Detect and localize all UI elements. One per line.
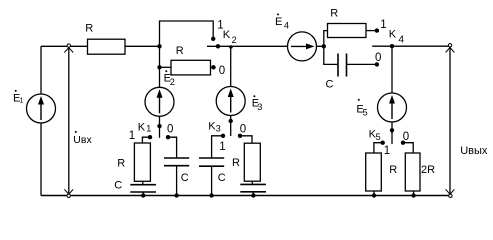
svg-text:C: C: [181, 172, 189, 184]
resistor R1 body: [88, 39, 126, 54]
wire E4 junction down to C3: [324, 46, 338, 64]
junction dot R6 rail: [372, 193, 376, 197]
svg-text:3: 3: [216, 124, 221, 134]
switch K5 contact 1 dot: [381, 141, 385, 145]
svg-text:R: R: [85, 23, 93, 35]
wire K5 left resistor to bottom rail: [373, 191, 375, 196]
resistor R5 body (K3 branch): [244, 143, 260, 181]
svg-text:1: 1: [380, 19, 386, 31]
wire K5 contact 0 to resistor 2R: [403, 143, 413, 154]
arrow inside source E5: [391, 98, 393, 119]
arrow inside source E1: [40, 99, 42, 120]
svg-text:1: 1: [19, 96, 23, 105]
resistor R6 body (K5 branch): [366, 153, 382, 191]
node circle Uout bottom: [449, 194, 452, 197]
wire right vertical output branch: [449, 46, 451, 195]
wire R3 right lead to K4 contact 1: [366, 30, 377, 32]
switch K1 contact 0 dot: [166, 135, 170, 139]
voltage source E1 circle: [27, 94, 56, 123]
switch K5 contact 0 dot: [401, 141, 405, 145]
svg-text:1: 1: [384, 145, 390, 157]
svg-text:K: K: [223, 29, 231, 41]
svg-text:C: C: [326, 79, 334, 91]
svg-text:Uвых: Uвых: [460, 145, 488, 157]
svg-text:K: K: [389, 29, 397, 41]
switch K4 pivot dot: [390, 44, 394, 48]
wire K3 contact 1 to capacitor: [212, 136, 223, 158]
switch K2 contact 1 dot: [211, 37, 215, 41]
svg-text:5: 5: [363, 108, 368, 118]
junction dot 2R rail: [411, 193, 415, 197]
capacitor C5 plates (under K3 resistor): [240, 183, 266, 185]
svg-text:1: 1: [129, 130, 135, 142]
junction dot E4 output: [322, 44, 326, 48]
wire loop node A up to K2 contact 1: [160, 21, 214, 46]
switch K4 contact 0 dot: [375, 62, 379, 66]
arrowhead Uvx bottom: [64, 189, 73, 194]
resistor R3 body: [328, 24, 367, 38]
wire K1 contact 1 to resistor: [142, 137, 150, 143]
arrowhead Uvx top: [64, 48, 73, 53]
node circle Uvx top: [67, 44, 70, 47]
wire C3 right lead to K4 contact 0: [347, 63, 377, 65]
junction node A dot (after R1): [157, 44, 161, 48]
arrowhead Uout top: [446, 48, 455, 53]
switch K2 pivot dot: [216, 44, 220, 48]
wire K1 resistor to series capacitor: [142, 181, 144, 184]
svg-text:0: 0: [240, 123, 246, 135]
wire K3 capacitor to bottom rail: [211, 166, 213, 195]
arrow inside source E3: [230, 92, 232, 113]
svg-text:C: C: [114, 179, 122, 191]
junction dot E3 top: [229, 45, 233, 49]
wire K3 series capacitor to bottom rail: [252, 192, 254, 196]
junction dot C5 rail: [251, 193, 255, 197]
svg-text:1: 1: [146, 123, 151, 133]
switch K1 contact 1 dot: [148, 135, 152, 139]
svg-text:4: 4: [284, 21, 289, 31]
switch K4 contact 1 dot: [375, 28, 379, 32]
wire E2 feed vertical: [159, 46, 161, 138]
wire K2 blade and top rail to E4: [207, 45, 324, 47]
capacitor C1 plates (under K1 resistor): [130, 184, 156, 186]
switch K2 contact 0 dot: [211, 65, 215, 69]
wire R2 right lead: [211, 66, 214, 68]
junction dot C1 rail: [141, 193, 145, 197]
resistor 2R body (K5 branch): [405, 153, 420, 191]
svg-text:R: R: [232, 157, 240, 169]
wire E4 junction up to R3: [324, 31, 328, 47]
voltage source E5 circle: [378, 93, 407, 122]
capacitor C4 plates (K3 contact 1): [199, 157, 224, 159]
measuring line Uvx: [68, 46, 70, 195]
svg-text:R: R: [117, 157, 125, 169]
capacitor C3 plates (E4 branch, vertical): [337, 54, 339, 77]
arrow inside source E4 (points right): [291, 45, 310, 47]
node circle Uvx bottom: [67, 194, 70, 197]
switch K3 contact 1 dot: [221, 134, 225, 138]
wire K1 series capacitor to bottom rail: [142, 192, 144, 196]
wire K5 right resistor to bottom rail: [413, 191, 415, 196]
node circle Uout top: [448, 44, 451, 47]
voltage source E4 circle: [288, 32, 317, 61]
svg-text:1: 1: [219, 141, 225, 153]
resistor R2 body: [171, 60, 211, 75]
wire E3 feed vertical: [230, 46, 232, 136]
wire E5 feed vertical: [391, 46, 393, 144]
wire K3 contact 0 to resistor: [240, 136, 252, 143]
svg-text:4: 4: [398, 35, 404, 46]
switch K3 pivot dot: [229, 119, 233, 123]
svg-text:Uвх: Uвх: [73, 134, 92, 146]
wire R2 left lead: [160, 66, 172, 68]
svg-text:1: 1: [217, 19, 223, 31]
arrowhead Uout bottom: [446, 189, 455, 194]
wire left vertical branch: [40, 46, 42, 195]
svg-text:3: 3: [257, 102, 262, 112]
wire K1 capacitor to bottom rail: [176, 166, 178, 196]
voltage source E2 circle: [145, 87, 174, 116]
svg-text:5: 5: [376, 132, 381, 142]
arrow inside source E2: [159, 92, 161, 113]
wire R1 to node A: [125, 45, 161, 47]
svg-text:0: 0: [219, 65, 225, 77]
voltage source E3 circle: [216, 87, 245, 116]
svg-text:E: E: [275, 16, 282, 28]
capacitor C2 plates (K1 contact 0): [164, 157, 189, 159]
svg-text:R: R: [389, 164, 397, 176]
svg-text:0: 0: [403, 131, 409, 143]
wire top rail left segment: [41, 45, 88, 47]
resistor R4 body (K1 branch): [134, 143, 150, 181]
svg-text:0: 0: [375, 52, 381, 64]
switch K5 pivot dot: [390, 128, 394, 132]
svg-text:2R: 2R: [421, 164, 435, 176]
wire K1 contact 0 to capacitor: [168, 137, 177, 158]
switch K3 contact 0 dot: [238, 134, 242, 138]
svg-text:2: 2: [232, 35, 237, 45]
wire K4 blade and top rail to output: [372, 45, 450, 47]
wire K3 resistor to series capacitor: [251, 181, 253, 184]
wire bottom rail: [41, 195, 450, 197]
svg-text:R: R: [330, 7, 338, 19]
svg-text:K: K: [138, 121, 146, 133]
svg-text:2: 2: [170, 77, 175, 87]
svg-text:R: R: [176, 45, 184, 57]
junction dot C2 rail: [174, 193, 178, 197]
switch K1 pivot dot: [157, 124, 161, 128]
junction dot R2 branch: [157, 65, 161, 69]
svg-text:C: C: [218, 172, 226, 184]
junction dot C4 rail: [209, 193, 213, 197]
svg-text:0: 0: [167, 124, 173, 136]
wire K5 contact 1 to resistor: [374, 143, 383, 154]
